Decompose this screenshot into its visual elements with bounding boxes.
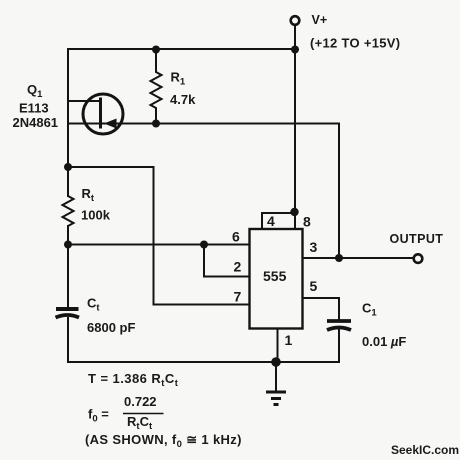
svg-text:(+12 TO +15V): (+12 TO +15V)	[310, 36, 400, 51]
svg-text:6: 6	[232, 229, 240, 245]
svg-text:E113: E113	[19, 101, 49, 116]
svg-text:1: 1	[285, 332, 293, 348]
svg-text:4.7k: 4.7k	[170, 92, 196, 107]
svg-text:0.01 µF: 0.01 µF	[362, 334, 406, 349]
svg-text:8: 8	[303, 214, 311, 230]
svg-text:4: 4	[267, 213, 275, 229]
svg-text:SeekIC.com: SeekIC.com	[391, 443, 459, 457]
svg-text:555: 555	[263, 268, 287, 284]
svg-text:OUTPUT: OUTPUT	[390, 232, 444, 246]
svg-text:5: 5	[310, 278, 318, 294]
svg-text:V+: V+	[312, 13, 328, 27]
svg-text:2N4861: 2N4861	[13, 115, 59, 130]
svg-text:100k: 100k	[81, 208, 111, 223]
svg-text:3: 3	[310, 239, 318, 255]
svg-text:0.722: 0.722	[124, 394, 157, 409]
svg-text:6800 pF: 6800 pF	[87, 320, 135, 335]
svg-text:2: 2	[234, 259, 242, 275]
svg-text:7: 7	[234, 289, 242, 305]
